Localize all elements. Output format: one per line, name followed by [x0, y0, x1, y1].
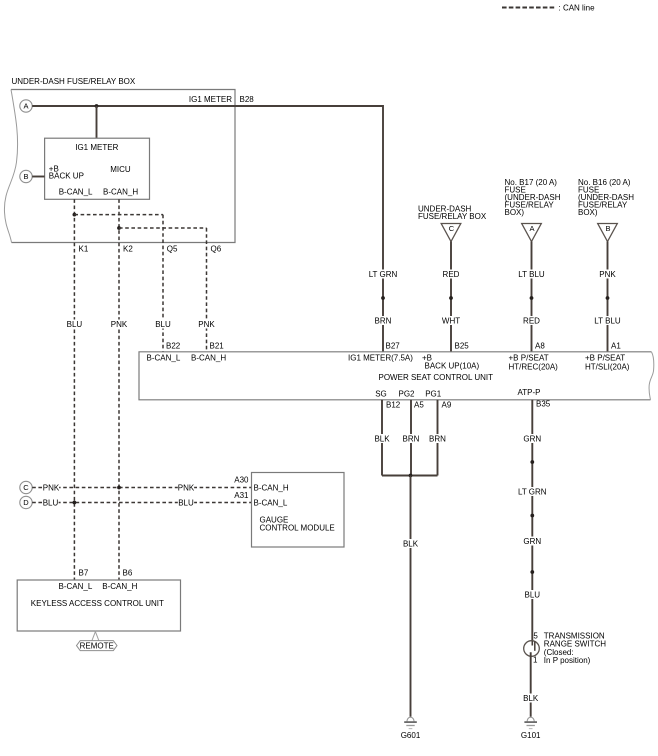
wire: PG1 (A9) drop — [437, 400, 439, 476]
connector C triangle (under-dash fuse/relay box) — [441, 224, 461, 242]
box: under-dash fuse/relay box torn left edge — [4, 90, 17, 243]
wire color GRN (B35 3rd) — [524, 537, 540, 546]
connector C (in-line connector circle) — [20, 481, 32, 493]
svg-text:C: C — [23, 483, 29, 492]
wire color GRN (B35 1st) — [524, 434, 540, 443]
svg-text:D: D — [23, 498, 29, 507]
svg-text:WHT: WHT — [442, 316, 460, 325]
wire: connector C down to power seat B25 — [450, 242, 452, 352]
wire: dashed vertical Q5 drop to power seat B22 — [162, 215, 164, 352]
wire color PNK (A1 upper) — [599, 270, 615, 279]
connector B triangle (fuse B16) — [598, 224, 618, 242]
svg-text:BLK: BLK — [374, 434, 390, 443]
svg-text:A: A — [529, 224, 534, 233]
wire color RED (A8 lower) — [523, 316, 539, 325]
svg-text:HT/REC(20A): HT/REC(20A) — [509, 363, 559, 372]
svg-text:BRN: BRN — [403, 434, 420, 443]
wire color BRN (A9) — [429, 434, 445, 443]
connector A triangle (fuse B17) — [522, 224, 542, 242]
box: under-dash fuse/relay box outline — [11, 90, 235, 243]
wire color BLU (K1) — [66, 320, 82, 329]
svg-text:RED: RED — [443, 270, 460, 279]
splice: GRN/LT GRN — [530, 460, 534, 464]
wire: ATP-P (B35) drop to transmission range switch — [531, 400, 533, 645]
wire color WHT (B25 lower) — [443, 316, 459, 325]
wire: ground bus joining B12/A5/A9 — [382, 475, 438, 477]
wire color BLU (B35 4th) — [524, 590, 540, 599]
wire: dashed vertical Q6 drop to power seat B21 — [206, 228, 208, 352]
svg-text:B6: B6 — [123, 569, 133, 578]
svg-text:POWER SEAT CONTROL UNIT: POWER SEAT CONTROL UNIT — [379, 373, 494, 382]
wire color BLU (Q5) — [155, 320, 171, 329]
wire: ground lead to G601 — [410, 476, 412, 717]
wire color BLU (D row, left) — [42, 498, 58, 507]
connector D (in-line connector circle) — [20, 496, 32, 508]
svg-text:K2: K2 — [123, 245, 133, 254]
svg-text:G101: G101 — [521, 731, 541, 740]
svg-text:A9: A9 — [442, 401, 452, 410]
junction: K2/B-CAN_H row — [117, 486, 121, 490]
svg-text:5: 5 — [533, 631, 538, 640]
svg-text:BOX): BOX) — [578, 208, 598, 217]
svg-text:PNK: PNK — [178, 483, 195, 492]
wire color PNK (K2) — [111, 320, 127, 329]
svg-text:G601: G601 — [401, 731, 421, 740]
wire color BLK (G101 lead) — [523, 694, 539, 703]
svg-text:B-CAN_H: B-CAN_H — [254, 483, 289, 492]
svg-text:ATP-P: ATP-P — [518, 388, 541, 397]
junction: A-wire to IG1 METER unit — [95, 104, 99, 108]
wire color BLK (B12) — [374, 434, 390, 443]
svg-text:IG1 METER(7.5A): IG1 METER(7.5A) — [348, 354, 413, 363]
svg-text:IG1 METER: IG1 METER — [189, 95, 232, 104]
wire: B-CAN_L dashed (K1 branch) from IG1 METER down to keyless unit B7 — [73, 199, 75, 580]
wire: fuse B16 down to power seat A1 — [607, 242, 609, 352]
svg-text:KEYLESS ACCESS CONTROL UNIT: KEYLESS ACCESS CONTROL UNIT — [31, 599, 164, 608]
svg-text:PNK: PNK — [599, 270, 616, 279]
svg-text:GRN: GRN — [523, 434, 541, 443]
wire color BLU (D row, right) — [178, 498, 194, 507]
callout arrow to REMOTE tag — [92, 632, 99, 641]
wire: B-CAN_H dashed (K2 branch) from IG1 METER down to keyless unit B6 — [118, 199, 120, 580]
ground G101 symbol — [527, 717, 534, 721]
svg-text:BLU: BLU — [155, 320, 171, 329]
wire: dashed horizontal B-CAN_L to Q5 — [74, 214, 163, 216]
svg-text:PG1: PG1 — [425, 389, 442, 398]
svg-text:B-CAN_H: B-CAN_H — [191, 354, 226, 363]
splice: LT GRN/BRN (B27 feed) — [381, 296, 385, 300]
svg-text:B27: B27 — [386, 342, 401, 351]
tag REMOTE (hexagon) — [77, 641, 118, 651]
svg-text:In P position): In P position) — [544, 656, 591, 665]
svg-text:HT/SLI(20A): HT/SLI(20A) — [585, 363, 630, 372]
wire: IG1 METER hot feed, horizontal from connector A — [32, 105, 383, 107]
wire color BLK (ground lead) — [402, 539, 418, 548]
svg-text:1: 1 — [533, 656, 538, 665]
svg-text:B21: B21 — [210, 342, 225, 351]
svg-text:B-CAN_L: B-CAN_L — [254, 499, 288, 508]
svg-text:B35: B35 — [536, 400, 551, 409]
splice: LT BLU/RED (A8 feed) — [530, 296, 534, 300]
svg-text:B-CAN_L: B-CAN_L — [59, 582, 93, 591]
svg-text:B25: B25 — [455, 342, 470, 351]
splice: GRN/BLU — [530, 570, 534, 574]
svg-text:B28: B28 — [240, 95, 255, 104]
wire color LT GRN (B27 feed upper) — [368, 270, 398, 279]
junction: B-CAN_H tap to Q6 — [117, 226, 121, 230]
wire: switch pin 1 to ground G101 — [530, 652, 532, 717]
svg-text:B: B — [605, 224, 610, 233]
svg-text:BRN: BRN — [429, 434, 446, 443]
svg-text:+B P/SEAT: +B P/SEAT — [509, 354, 549, 363]
wire color RED (B25 upper) — [443, 270, 459, 279]
svg-text:PNK: PNK — [43, 483, 60, 492]
svg-text:REMOTE: REMOTE — [80, 642, 114, 651]
svg-text:LT GRN: LT GRN — [369, 270, 398, 279]
wire color PNK (Q6) — [198, 320, 214, 329]
connector A (in-line connector circle) — [20, 100, 32, 112]
svg-text:B-CAN_H: B-CAN_H — [103, 188, 138, 197]
wire color LT BLU (A1 lower) — [593, 316, 623, 325]
box: gauge control module — [252, 473, 345, 548]
svg-text:A: A — [23, 102, 28, 111]
svg-text:B7: B7 — [79, 569, 89, 578]
transmission range switch body (circle) — [524, 641, 540, 657]
svg-text:A5: A5 — [414, 401, 424, 410]
wire color LT GRN (B35 2nd) — [518, 487, 548, 496]
splice: LT GRN/GRN — [530, 514, 534, 518]
svg-text:BLK: BLK — [523, 694, 539, 703]
svg-text:B12: B12 — [386, 401, 401, 410]
svg-text:UNDER-DASH FUSE/RELAY BOX: UNDER-DASH FUSE/RELAY BOX — [12, 77, 136, 86]
wire: PG2 (A5) drop — [410, 400, 412, 476]
svg-text:: CAN line: : CAN line — [559, 3, 596, 12]
svg-text:RED: RED — [523, 316, 540, 325]
svg-text:K1: K1 — [79, 245, 89, 254]
box: keyless access control unit — [17, 580, 180, 631]
svg-text:A30: A30 — [234, 475, 249, 484]
svg-text:A8: A8 — [535, 342, 545, 351]
splice: RED/WHT (B25 feed) — [449, 296, 453, 300]
svg-text:BACK UP(10A): BACK UP(10A) — [425, 362, 480, 371]
svg-text:CONTROL MODULE: CONTROL MODULE — [260, 523, 335, 532]
svg-text:BRN: BRN — [375, 316, 392, 325]
svg-text:Q5: Q5 — [167, 245, 178, 254]
wire: fuse B17 down to power seat A8 — [531, 242, 533, 352]
svg-text:BLK: BLK — [403, 539, 419, 548]
svg-text:BOX): BOX) — [505, 208, 525, 217]
svg-text:MICU: MICU — [110, 165, 131, 174]
svg-text:B-CAN_L: B-CAN_L — [59, 188, 93, 197]
svg-text:BLU: BLU — [525, 590, 541, 599]
wire: dashed horizontal B-CAN_H to Q6 — [119, 227, 207, 229]
svg-text:A1: A1 — [611, 342, 621, 351]
box: power seat control unit outline — [139, 352, 651, 400]
svg-text:BLU: BLU — [43, 498, 59, 507]
junction: B-CAN_L tap to Q5 — [73, 213, 77, 217]
svg-text:LT BLU: LT BLU — [518, 270, 545, 279]
svg-text:LT GRN: LT GRN — [518, 487, 547, 496]
wire color BRN (A5) — [403, 434, 419, 443]
svg-text:B-CAN_H: B-CAN_H — [102, 582, 137, 591]
svg-text:+B P/SEAT: +B P/SEAT — [585, 354, 625, 363]
wire: SG (B12) drop — [381, 400, 383, 476]
svg-text:GRN: GRN — [523, 537, 541, 546]
svg-text:LT BLU: LT BLU — [594, 316, 621, 325]
wire: drop from A-wire to IG1 METER box — [96, 106, 98, 138]
legend: CAN line dashed sample — [502, 7, 556, 9]
svg-text:IG1 METER: IG1 METER — [75, 143, 118, 152]
svg-text:PNK: PNK — [111, 320, 128, 329]
wire: dashed B-CAN_H row from connector C to gauge module A30 — [32, 487, 251, 489]
transmission range switch blade (closed contact) — [534, 641, 536, 651]
wire color PNK (C row, right) — [178, 483, 194, 492]
ground G601 symbol — [407, 717, 414, 721]
wire color BRN (B27 feed lower) — [375, 316, 391, 325]
svg-text:PNK: PNK — [198, 320, 215, 329]
svg-text:B22: B22 — [166, 342, 181, 351]
svg-text:SG: SG — [375, 389, 387, 398]
wire color LT BLU (A8 upper) — [517, 270, 547, 279]
svg-text:C: C — [449, 224, 455, 233]
junction: K1/B-CAN_L row — [73, 501, 77, 505]
svg-text:BLU: BLU — [67, 320, 83, 329]
wire: dashed B-CAN_L row from connector D to gauge module A31 — [32, 502, 251, 504]
svg-text:A31: A31 — [234, 491, 249, 500]
svg-text:Q6: Q6 — [211, 245, 222, 254]
wire: B28 feed drop to power seat control unit B27 — [382, 105, 384, 352]
junction: ground bus — [409, 474, 413, 478]
svg-text:BACK UP: BACK UP — [49, 172, 84, 181]
box: power seat control unit torn right edge — [649, 352, 654, 400]
splice: PNK/LT BLU (A1 feed) — [606, 296, 610, 300]
box: IG1 METER unit — [45, 138, 150, 199]
svg-text:PG2: PG2 — [398, 389, 415, 398]
svg-text:B-CAN_L: B-CAN_L — [147, 354, 181, 363]
connector B (in-line connector circle) — [20, 170, 32, 182]
svg-text:FUSE/RELAY BOX: FUSE/RELAY BOX — [418, 212, 487, 221]
svg-text:BLU: BLU — [178, 498, 194, 507]
wire color PNK (C row, left) — [43, 483, 59, 492]
wire: connector B to +B BACK UP pin — [32, 176, 44, 178]
svg-text:B: B — [23, 172, 28, 181]
